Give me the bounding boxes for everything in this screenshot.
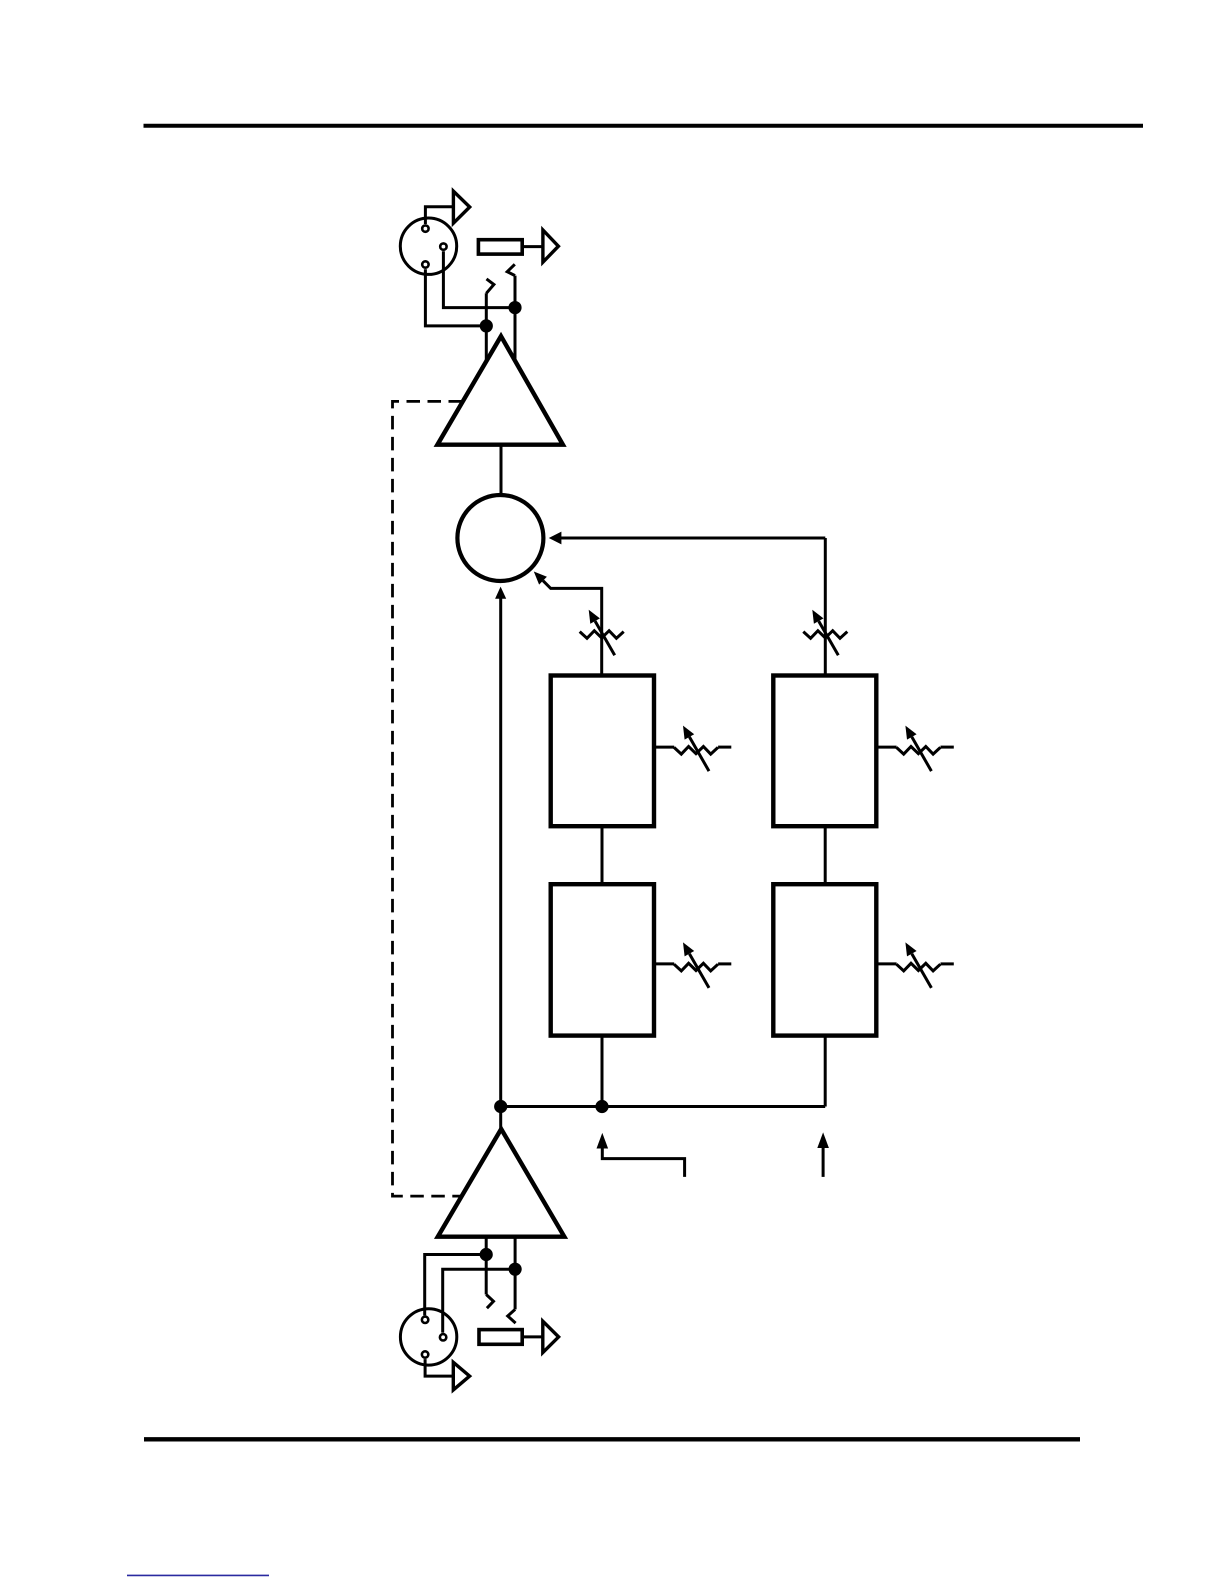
wire: right leg to J2 pin2 (443, 1269, 515, 1332)
J1 pin 3 (422, 261, 428, 267)
variable pot P4 (896, 726, 940, 772)
normalled contact break (left input) (486, 279, 494, 293)
resistor block R2 (479, 1330, 522, 1345)
wire: bottom bus horizontal (501, 1105, 826, 1108)
XLR connector J2 shell (output) (400, 1309, 456, 1365)
wire: J1 pin2 to node B (443, 251, 515, 307)
normalled contact break (right output) (508, 1309, 516, 1323)
wire: U1 out to summing node (500, 445, 503, 497)
wire: J1 pin3 to node A (425, 269, 486, 326)
J1 pin 1 (422, 225, 428, 231)
wire: U2 right output leg (514, 1237, 517, 1310)
wire: R1 to arrow (522, 245, 543, 248)
bottom page rule (144, 1437, 1080, 1441)
junction on right output leg (508, 1263, 521, 1276)
input amplifier U1 (437, 336, 563, 445)
variable pot P1 (left chain feed) (580, 610, 624, 656)
variable pot P3 (674, 726, 718, 772)
normalled contact break (right input) (507, 264, 515, 275)
pot P4 leads (DR1 control) (876, 746, 954, 749)
J1 pin 2 (440, 243, 446, 249)
variable pot P2 (right chain feed) (803, 610, 847, 656)
label arrow 1 (elbow) (597, 1133, 685, 1177)
arrowhead into summing node bottom (495, 587, 506, 599)
arrowhead into summing node lower-right (534, 572, 547, 585)
wire: left chain return with elbow (543, 581, 602, 676)
label arrow 2 (817, 1132, 829, 1177)
open arrow: R1 out (543, 230, 559, 262)
delay block DL1 (551, 676, 654, 827)
open arrow: J2 shield out (453, 1362, 469, 1390)
wire: left leg to J2 pin1 (425, 1255, 487, 1316)
wire: R2 to arrow (522, 1335, 543, 1338)
junction on bus at output amp (494, 1100, 507, 1113)
open arrow: R2 out (543, 1321, 559, 1352)
wire: left chain bottom to bus (601, 1036, 604, 1107)
resistor block R1 (478, 240, 522, 254)
wire: DR1 to DR2 (824, 826, 827, 884)
summing node (457, 495, 543, 581)
pot P6 leads (DR2 control) (876, 962, 954, 965)
J2 pin 1 (422, 1317, 428, 1323)
wire: DL1 to DL2 (601, 826, 604, 884)
J2 pin 2 (440, 1334, 446, 1340)
wire: right chain top vertical (824, 538, 827, 676)
pot P5 leads (DL2 control) (654, 962, 731, 965)
top page rule (144, 124, 1144, 128)
delay block DR1 (773, 676, 876, 827)
junction on left output leg (480, 1248, 493, 1261)
wire: left input to amp (485, 293, 488, 362)
output amplifier U2 (438, 1129, 565, 1237)
J2 pin 3 (422, 1351, 428, 1357)
variable pot P6 (896, 942, 940, 988)
node A junction (480, 319, 493, 332)
delay block DR2 (773, 884, 876, 1035)
wire: summing node to bottom junction (499, 598, 502, 1131)
footer link underline (127, 1574, 269, 1576)
variable pot P5 (674, 942, 718, 988)
normalled contact break (left output) (486, 1295, 493, 1309)
open arrow: J1 shield out (453, 191, 469, 223)
wire: right chain bottom to bus (824, 1036, 827, 1107)
arrowhead into summing node right (549, 532, 562, 545)
wire: feedback return (right chain) (561, 537, 825, 540)
XLR connector J1 shell (input) (400, 218, 456, 274)
delay block DL2 (551, 884, 654, 1035)
junction on bus at left chain (595, 1100, 608, 1113)
pot P3 leads (DL1 control) (654, 746, 731, 749)
wire: U2 left output leg (485, 1237, 488, 1295)
dashed bypass path (393, 401, 463, 1196)
wire: J1 pin1 to chassis arrow (425, 207, 453, 224)
node B junction (508, 301, 521, 314)
wire: right input to amp (514, 276, 517, 361)
wire: J2 pin3 to chassis arrow (425, 1359, 453, 1376)
